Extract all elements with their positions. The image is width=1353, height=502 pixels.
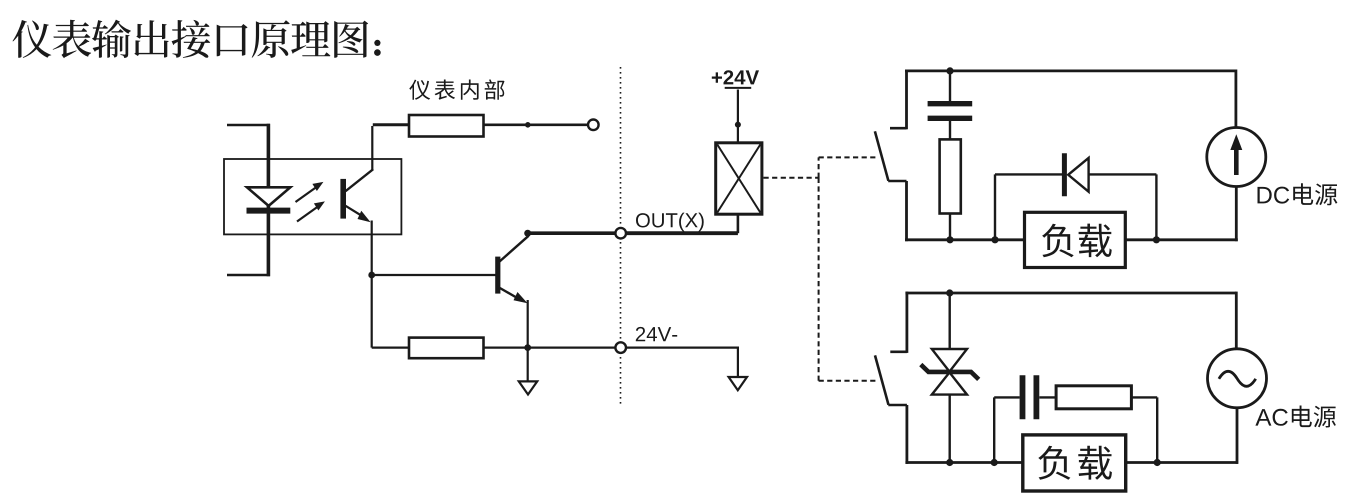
DC loop left vertical upper [905,70,908,130]
AC loop bottom wire left [905,461,1026,464]
TVS D3 bottom triangle [932,372,967,394]
switch S1 blade [875,131,889,181]
switch S2 bottom stub [888,404,907,407]
wire top-left stub [227,124,270,127]
node dot snubber left [991,459,998,466]
wire emitter riser [371,221,373,276]
load box 负载 DC [1025,212,1126,267]
AC source sine wave [1219,371,1256,386]
wire snubber right riser [1156,397,1158,462]
wire +24V riser [737,90,739,143]
ground symbol 24V- [729,377,747,390]
wire OUT(X) thick left [528,231,616,235]
AC loop right vertical upper [1235,292,1238,350]
wire 24V- right [626,347,738,349]
node dot top of C1 branch [946,67,953,74]
resistor R1 仪表内部 [409,115,484,137]
label 负载 DC load [1042,224,1112,258]
DC loop bottom wire right [1124,238,1238,241]
wire C1 to R3 [949,121,951,141]
label +24V [712,70,759,84]
transistor Q1 collector [499,236,529,262]
DC source circle [1207,128,1266,187]
diode D2 cathode bar [1062,153,1067,196]
light arrow 1 [296,183,323,202]
wire 24V- drop to ground [737,347,739,377]
switch S2 blade [875,355,889,404]
resistor R4 [1056,386,1131,409]
wire TVS riser top [949,293,951,350]
capacitor C2 plate left [1020,375,1026,419]
X-box diagonal 2 [717,144,760,212]
DC loop right vertical lower [1235,187,1238,242]
dotted separator line [620,67,622,404]
wire R1 to terminal [484,124,588,127]
diode D2 triangle [1068,158,1088,192]
underline under 24V [725,87,752,89]
wire emitter down [527,300,529,381]
LED D1 triangle [247,187,290,206]
AC loop bottom wire right [1125,461,1238,464]
optocoupler U1 box [224,159,401,234]
capacitor C2 plate right [1034,375,1040,419]
wire R4 to right riser [1131,396,1157,398]
phototransistor emitter [346,206,371,223]
AC loop left vertical lower [906,405,909,464]
node dot on R1 wire [525,122,531,128]
terminal circle 24V- [615,342,626,353]
node dot TVS bottom [946,459,953,466]
AC loop left vertical upper [906,292,909,353]
wire TVS riser bottom [949,394,951,463]
wire diode branch left riser [994,174,996,239]
AC loop top wire [905,292,1236,295]
TVS D3 top triangle [932,349,967,372]
wire to capacitor C2 [994,396,1019,398]
wire diode branch right riser [1155,174,1157,239]
capacitor C1 plate 1 [928,101,973,106]
node dot diode left [991,236,998,243]
wire R3 to bottom [949,214,951,240]
TVS D3 middle bar [921,365,979,380]
node collector junction dot [524,230,531,237]
node dot emitter/24V- crossing [524,344,531,351]
node junction dot base [368,272,375,279]
wire into resistor R2 [372,347,411,349]
DC loop left vertical lower [905,181,908,241]
node dot TVS top [946,289,953,296]
light arrow 2 [297,202,324,221]
switch S1 bottom stub [888,180,906,183]
label OUT(X) [636,213,704,232]
label DC电源 [1258,183,1338,205]
node dot on +24V riser [735,122,741,128]
DC source arrow [1230,134,1242,175]
label 仪表内部 [409,79,504,99]
wire base of Q1 [372,274,496,276]
wire OUT(X) thick right [626,231,738,235]
resistor R2 [409,338,484,359]
ground symbol under Q1 [519,381,537,394]
node dot snubber right [1154,459,1161,466]
label 负载 AC load [1038,446,1112,480]
wire capacitor C1 riser [949,71,951,101]
X-box diagonal 1 [717,144,760,212]
switch S1 top stub [890,127,907,130]
node dot diode right [1153,236,1160,243]
wire collector to resistor R1 [373,123,411,126]
wire diode to right riser [1089,173,1157,175]
wire snubber left riser [993,397,995,462]
wire C2 to R4 [1039,396,1057,398]
SSR X-box K1 [716,143,762,214]
wire bottom-left stub [227,274,270,276]
terminal circle OUT(X) [615,228,626,239]
label 24V- [636,327,677,341]
phototransistor collector [346,169,374,191]
load box 负载 AC [1023,435,1126,491]
transistor Q1 emitter [499,288,528,304]
capacitor C1 plate 2 [928,116,973,121]
wire LED branch vertical [267,124,271,277]
label AC电源 [1255,406,1336,428]
resistor R3 [940,139,961,213]
wire 24V- left [484,347,615,349]
DC loop top wire [905,70,1236,73]
dashed link from X-box [764,157,878,380]
switch S2 top stub [890,350,907,353]
phototransistor base bar [340,179,346,219]
node dot R3 bottom [946,236,953,243]
title text 仪表输出接口原理图： [13,20,369,59]
wire down to resistor R2 [371,275,373,348]
LED D1 cathode bar [247,208,291,214]
DC loop right vertical upper [1235,70,1238,128]
transistor Q1 base bar [495,257,500,294]
DC loop bottom wire left [905,238,1026,241]
wire to diode D2 [995,173,1062,175]
AC source circle [1208,349,1267,408]
wire collector riser [371,126,373,170]
terminal circle top [588,120,599,131]
wire X-box to OUT(X) [737,214,740,233]
AC loop right vertical lower [1236,408,1239,464]
